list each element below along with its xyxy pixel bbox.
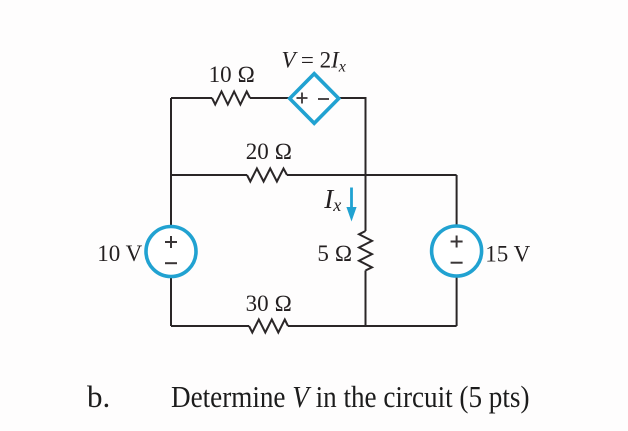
wire right vertical lower xyxy=(456,276,458,326)
svg-text:5 Ω: 5 Ω xyxy=(317,241,352,266)
wire middle horizontal right xyxy=(287,174,457,176)
svg-text:20 Ω: 20 Ω xyxy=(246,139,292,164)
dependent source plus sign xyxy=(297,93,330,104)
wire middle branch lower xyxy=(365,271,367,327)
source V2 minus sign xyxy=(451,262,463,264)
svg-text:V = 2Ix: V = 2Ix xyxy=(282,47,346,75)
svg-text:10 Ω: 10 Ω xyxy=(209,62,255,87)
wire bottom horizontal left xyxy=(171,325,249,327)
wire middle horizontal left xyxy=(171,174,247,176)
dependent source minus sign xyxy=(318,98,329,100)
source V1 minus sign xyxy=(165,262,177,264)
svg-text:10 V: 10 V xyxy=(97,241,142,266)
source V2 15V circle xyxy=(432,226,482,276)
resistor R 10ohm xyxy=(212,92,250,105)
wire middle branch upper xyxy=(365,175,367,231)
source V1 plus sign xyxy=(165,236,177,263)
wire right vertical upper xyxy=(456,175,458,226)
svg-text:Determine V in the circuit (5: Determine V in the circuit (5 pts) xyxy=(171,379,530,414)
dependent source diamond V=2Ix xyxy=(290,74,339,124)
current arrow Ix xyxy=(346,188,356,222)
resistor R 20ohm xyxy=(247,169,287,182)
source V1 10V circle xyxy=(146,227,196,277)
svg-text:b.: b. xyxy=(87,379,110,414)
wire dependent source to corner and down xyxy=(339,98,366,175)
resistor R 30ohm xyxy=(249,320,288,333)
wire resistor to dependent source xyxy=(250,97,290,99)
wire left vertical upper xyxy=(170,98,172,227)
wire top-left horizontal (node top) xyxy=(171,97,212,99)
svg-text:15 V: 15 V xyxy=(485,242,530,267)
svg-text:30 Ω: 30 Ω xyxy=(246,291,292,316)
wire bottom horizontal right xyxy=(288,325,457,327)
source V2 plus sign xyxy=(451,236,463,263)
resistor R 5ohm vertical xyxy=(359,231,372,271)
wire left vertical lower xyxy=(170,277,172,327)
svg-text:Ix: Ix xyxy=(323,184,341,215)
